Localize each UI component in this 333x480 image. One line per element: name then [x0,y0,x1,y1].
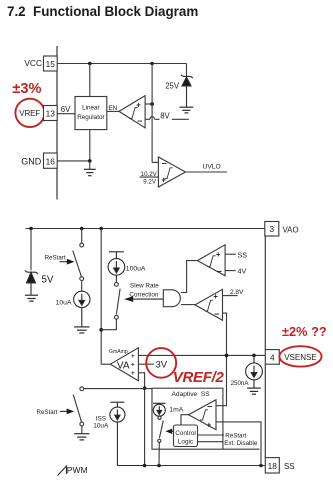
svg-text:Adaptive SS: Adaptive SS [172,391,211,398]
pin 3 (VAO) [265,222,279,237]
svg-text:8V: 8V [160,111,170,120]
svg-text:+: + [207,421,212,430]
wire SS input [225,253,236,255]
svg-text:100uA: 100uA [126,266,146,273]
power bar (ISS source) [110,402,124,407]
svg-text:1mA: 1mA [169,406,183,413]
svg-text:–: – [137,115,142,125]
wire gate input 2 to 2.8V comparator output [181,304,195,306]
comparator U3 (UVLO) [158,157,185,187]
wire rail to switch [81,229,83,244]
wire UVLO output [186,171,228,173]
box bottom extension [223,448,260,450]
ground (25V zener) [180,107,194,113]
wire regulator top to VCC [89,64,91,97]
arrow control logic to switch [165,429,173,434]
PWM sawtooth symbol [58,466,67,476]
svg-text:6V: 6V [61,105,71,114]
node: VCC to comparator bus junction [150,62,154,66]
current source I4 ISS 10uA [110,407,145,465]
ground (250nA) [247,388,261,394]
wire adaptive plus input to SS pin [216,422,261,466]
svg-text:PWM: PWM [67,465,88,475]
svg-text:VREF: VREF [19,109,40,118]
svg-text:Correction: Correction [129,291,159,298]
svg-text:VREF/2: VREF/2 [173,369,225,386]
svg-text:SS: SS [284,462,295,471]
node: SS pin branch on rail [259,464,263,468]
regulator U1 Linear Regulator [75,97,107,130]
wire VA mid input 3V stub [138,363,153,365]
svg-text:–: – [217,266,222,276]
pin 16 (GND) [44,153,58,168]
svg-text:+: + [216,250,221,259]
svg-text:Logic: Logic [178,439,194,446]
wire VREF to regulator [57,113,75,115]
wire 2.8V comp minus to VSENSE bus [216,313,227,406]
arrow slew control [124,296,163,302]
svg-text:–: – [207,401,212,411]
wire zener drop [186,64,188,77]
wire 2.8V input stub [223,295,238,297]
svg-text:VCC: VCC [24,58,42,68]
svg-text:4V: 4V [238,267,247,276]
node: slew switch junction [99,328,103,332]
wire Ext Disable stub [198,441,224,443]
comparator U2 (EN, mirrored) [119,96,145,128]
wire VA output to rail branch [101,363,110,365]
svg-text:250nA: 250nA [231,380,250,387]
comparator U5 (2.8V, mirrored) [195,289,223,320]
svg-text:±2% ??: ±2% ?? [282,324,327,339]
wire UVLO threshold input [140,176,159,178]
node: rail to ReStart switch [80,227,84,231]
svg-text:25V: 25V [165,81,180,90]
svg-text:GmAmp: GmAmp [109,349,128,355]
node: restart wire junction [143,386,147,390]
svg-text:SS: SS [238,250,248,259]
svg-text:VAO: VAO [283,225,299,234]
svg-text:GND: GND [21,156,42,166]
svg-text:UVLO: UVLO [203,163,221,170]
power bar (1mA source) [153,403,165,405]
node: plus input on bus [150,102,154,106]
svg-text:Linear: Linear [82,104,100,111]
svg-text:3V: 3V [156,359,168,370]
wire restart to adaptive SS box [84,388,152,390]
wire slew switch to junction [101,319,116,330]
ground (5V zener) [25,295,38,301]
IC package boundary right (pin3 to pin4) [264,236,266,350]
svg-text:18: 18 [268,461,278,471]
svg-text:VA: VA [117,361,130,372]
wire GND [57,160,90,162]
ground (GND pin) [84,161,96,176]
svg-text:–: – [214,309,219,319]
red circle around 3V [146,348,176,378]
svg-text:4: 4 [270,352,275,362]
svg-text:10uA: 10uA [93,423,109,430]
arrow to switch 2 [60,409,74,415]
block Adaptive SS [152,388,223,449]
wire VA bottom input down to SS wire and rail [138,373,144,466]
wire bottom SS rail [145,465,266,467]
IC package boundary (top section) [56,46,58,200]
svg-text:Regulator: Regulator [77,114,104,121]
wire rail down to VA output node [100,229,102,365]
node: rail to 5V zener [29,227,33,231]
svg-text:+: + [131,353,135,360]
wire adaptive comp output to control logic [181,415,189,425]
switch SW1 ReStart [73,243,84,280]
svg-text:+: + [136,100,141,109]
svg-text:Control: Control [175,430,196,437]
node: VCC to regulator junction [88,62,92,66]
wire VCC rail [57,63,186,65]
svg-text:ReStart: ReStart [225,433,246,440]
ground (ReStart switch) [74,434,89,440]
svg-text:ReStart: ReStart [45,255,66,262]
svg-text:+: + [131,362,135,369]
red ellipse around VSENSE [279,346,321,366]
zener diode 5V [25,270,38,294]
svg-text:Slew Rate: Slew Rate [130,282,159,289]
node: VSENSE bus junction [225,354,229,358]
svg-text:VSENSE: VSENSE [284,353,316,362]
node: 1mA switch on rail [157,464,161,468]
wire 8V reference to minus input (with crossover hop) [145,117,189,120]
pin 18 (SS) [265,458,279,473]
current source I1 10uA [74,291,90,326]
ground (10uA source) [74,327,89,333]
wire bus to UVLO minus input [152,161,158,163]
svg-text:10.2V: 10.2V [141,171,158,178]
switch SW3 ReStart (soft start) [73,387,84,433]
current source I2 100uA [108,259,125,283]
node: GND junction [88,159,92,163]
current source I5 1mA [153,404,165,416]
IC package boundary right (pin4 to pin18) [264,364,266,457]
wire rail to 5V zener [30,229,32,271]
AND gate G1 (mirrored) [163,290,180,307]
svg-text:–: – [162,158,167,168]
svg-text:13: 13 [46,109,56,119]
wire top rail (VAO) [26,228,265,230]
svg-text:10uA: 10uA [56,300,72,307]
svg-text:9.2V: 9.2V [143,179,157,186]
wire ReStart stub [198,434,225,436]
wire regulator bottom to GND [89,130,91,161]
svg-text:ReStart: ReStart [37,409,58,416]
input marks [131,353,135,377]
svg-text:5V: 5V [41,275,53,286]
comparator U6 (adaptive SS, mirrored) [189,400,217,430]
arrow to switch [60,259,75,265]
svg-text:3: 3 [269,224,274,234]
wire VA top input to VSENSE pin [138,354,265,356]
wire VCC sense bus [151,64,153,163]
node: rail to VA output branch [99,227,103,231]
svg-text:Ext. Disable: Ext. Disable [224,440,258,447]
svg-text:15: 15 [46,59,56,69]
svg-text:16: 16 [46,156,56,166]
svg-text:+: + [213,292,218,301]
svg-text:±3%: ±3% [12,81,41,97]
svg-text:+: + [131,370,135,377]
pin 4 (VSENSE) [265,350,279,365]
wire switch to 10uA source [81,281,83,292]
block Control Logic [174,425,198,447]
wire gate input 1 to SS comparator output [181,261,198,293]
wire regulator EN to comparator output [107,110,119,112]
node: 250nA junction [252,354,256,358]
pin 15 (VCC) [44,56,58,71]
opamp VA (GmAmp, mirrored) [110,348,138,381]
comparator U4 (SS/4V, mirrored) [197,245,225,276]
svg-text:+: + [161,175,166,184]
wire comparator plus input to VCC bus [145,103,152,105]
node: VA branch on rail [143,464,147,468]
svg-text:2.8V: 2.8V [230,289,244,296]
red circle around VREF [15,99,44,127]
wire 4V input [225,270,236,272]
pin 13 (VREF) [44,106,58,121]
zener diode 25V [181,75,193,107]
switch SW2 slew rate correction [115,283,121,320]
current source I3 250nA [246,355,263,387]
svg-text:7.2 Functional Block Diagram: 7.2 Functional Block Diagram [7,4,198,19]
power bar (100uA source) [109,252,124,259]
switch SW4 (1mA) [158,416,164,465]
